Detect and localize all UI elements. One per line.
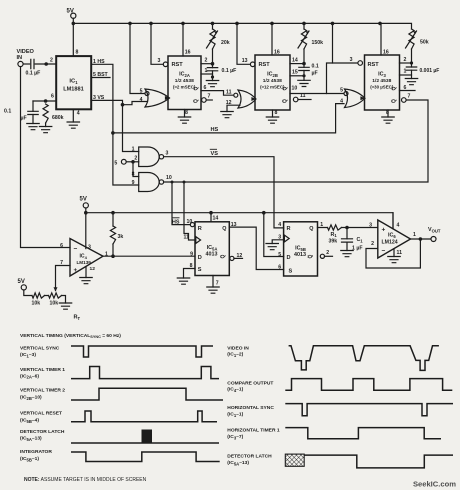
svg-text:Q̅: Q̅ bbox=[391, 99, 398, 103]
svg-text:Q̅: Q̅ bbox=[193, 99, 200, 103]
svg-text:Q̅: Q̅ bbox=[307, 254, 314, 258]
svg-text:Q: Q bbox=[222, 226, 226, 232]
svg-text:HORIZONTAL SYNC: HORIZONTAL SYNC bbox=[227, 405, 274, 411]
svg-text:3: 3 bbox=[369, 222, 372, 228]
svg-text:SeekIC.com: SeekIC.com bbox=[413, 480, 456, 489]
svg-text:2: 2 bbox=[404, 57, 407, 63]
svg-text:NOTE: ASSUME TARGET IS IN MIDD: NOTE: ASSUME TARGET IS IN MIDDLE OF SCRE… bbox=[24, 477, 147, 483]
svg-text:0.1: 0.1 bbox=[312, 64, 319, 70]
svg-text:C1: C1 bbox=[357, 237, 364, 243]
svg-text:µF: µF bbox=[312, 71, 318, 77]
svg-text:(≈12 mSEC): (≈12 mSEC) bbox=[260, 84, 285, 89]
svg-text:7: 7 bbox=[208, 94, 211, 100]
svg-text:7: 7 bbox=[408, 94, 411, 100]
svg-text:(IC2A–6): (IC2A–6) bbox=[20, 373, 39, 379]
svg-text:IC3: IC3 bbox=[378, 72, 386, 78]
svg-text:5V: 5V bbox=[80, 197, 87, 203]
svg-text:RT: RT bbox=[74, 315, 81, 321]
svg-text:39k: 39k bbox=[329, 238, 338, 244]
svg-text:10k: 10k bbox=[32, 301, 41, 307]
svg-text:6: 6 bbox=[404, 85, 407, 91]
svg-text:VIDEO IN: VIDEO IN bbox=[227, 345, 249, 351]
svg-text:16: 16 bbox=[185, 50, 191, 56]
svg-text:Q: Q bbox=[283, 86, 289, 90]
svg-text:(IC5B–4): (IC5B–4) bbox=[20, 417, 39, 423]
svg-text:3: 3 bbox=[88, 245, 91, 251]
svg-text:(≈30 µSEC): (≈30 µSEC) bbox=[370, 84, 394, 89]
svg-text:INTEGRATOR: INTEGRATOR bbox=[20, 449, 52, 455]
svg-text:1/2 4538: 1/2 4538 bbox=[175, 78, 194, 84]
svg-text:4: 4 bbox=[278, 222, 281, 228]
svg-text:10: 10 bbox=[166, 175, 172, 181]
svg-text:1 HS: 1 HS bbox=[93, 59, 105, 65]
svg-text:4: 4 bbox=[340, 99, 343, 105]
svg-text:5: 5 bbox=[140, 88, 143, 94]
svg-text:LM1881: LM1881 bbox=[63, 87, 84, 93]
svg-text:+: + bbox=[382, 227, 386, 234]
svg-text:4: 4 bbox=[77, 111, 80, 117]
svg-text:(IC3–7): (IC3–7) bbox=[227, 434, 243, 440]
svg-text:8: 8 bbox=[386, 110, 389, 116]
svg-text:5: 5 bbox=[114, 160, 117, 166]
svg-text:9: 9 bbox=[132, 180, 135, 186]
svg-text:IC1: IC1 bbox=[69, 79, 78, 85]
svg-text:VERTICAL TIMER 2: VERTICAL TIMER 2 bbox=[20, 388, 65, 394]
svg-text:16: 16 bbox=[274, 49, 280, 55]
svg-text:13: 13 bbox=[231, 222, 237, 228]
svg-text:LM124: LM124 bbox=[382, 240, 398, 246]
svg-text:3: 3 bbox=[278, 235, 281, 241]
svg-text:0.1: 0.1 bbox=[4, 109, 11, 115]
svg-text:Q: Q bbox=[392, 86, 398, 90]
svg-text:HORIZONTAL TIMER 1: HORIZONTAL TIMER 1 bbox=[227, 428, 280, 434]
svg-text:3 VS: 3 VS bbox=[93, 95, 105, 101]
svg-text:12: 12 bbox=[90, 266, 96, 272]
svg-text:µF: µF bbox=[21, 116, 27, 122]
svg-text:DETECTOR LATCH: DETECTOR LATCH bbox=[20, 429, 65, 435]
svg-text:D: D bbox=[287, 255, 291, 261]
svg-text:+: + bbox=[74, 267, 78, 274]
svg-text:RST: RST bbox=[172, 62, 184, 68]
svg-text:RST: RST bbox=[368, 62, 380, 68]
svg-text:Q̅: Q̅ bbox=[282, 99, 289, 103]
svg-text:7: 7 bbox=[216, 281, 219, 287]
svg-text:−: − bbox=[382, 248, 386, 255]
svg-text:5V: 5V bbox=[67, 9, 74, 15]
svg-text:5: 5 bbox=[340, 88, 343, 94]
svg-text:11: 11 bbox=[184, 235, 190, 241]
svg-text:150k: 150k bbox=[312, 40, 324, 46]
svg-text:5V: 5V bbox=[18, 279, 25, 285]
svg-text:11: 11 bbox=[226, 90, 232, 96]
svg-text:(IC5A–13): (IC5A–13) bbox=[20, 436, 42, 442]
svg-text:4: 4 bbox=[140, 97, 143, 103]
svg-text:VERTICAL TIMER 1: VERTICAL TIMER 1 bbox=[20, 367, 65, 373]
svg-text:1: 1 bbox=[105, 252, 108, 258]
svg-text:HS: HS bbox=[211, 127, 219, 133]
svg-text:HS: HS bbox=[172, 220, 180, 226]
svg-text:D: D bbox=[198, 255, 202, 261]
svg-text:1/2 4538: 1/2 4538 bbox=[263, 78, 282, 84]
svg-text:2: 2 bbox=[371, 241, 374, 247]
svg-text:3: 3 bbox=[166, 151, 169, 157]
svg-text:R: R bbox=[287, 226, 291, 232]
svg-text:4013: 4013 bbox=[294, 252, 306, 258]
svg-text:1: 1 bbox=[132, 147, 135, 153]
svg-text:(IC1–2): (IC1–2) bbox=[227, 351, 243, 357]
svg-text:Q: Q bbox=[194, 86, 200, 90]
svg-text:5 BST: 5 BST bbox=[93, 72, 109, 78]
svg-text:Q: Q bbox=[309, 226, 313, 232]
svg-text:1: 1 bbox=[205, 68, 208, 74]
svg-text:COMPARE OUTPUT: COMPARE OUTPUT bbox=[227, 380, 273, 386]
svg-text:RST: RST bbox=[259, 62, 271, 68]
svg-text:S: S bbox=[289, 269, 293, 275]
svg-text:7: 7 bbox=[60, 260, 63, 266]
svg-text:1: 1 bbox=[404, 69, 407, 75]
svg-text:1 µF: 1 µF bbox=[352, 246, 362, 252]
svg-text:5: 5 bbox=[278, 252, 281, 258]
svg-text:4013: 4013 bbox=[206, 252, 218, 258]
svg-text:VERTICAL SYNC: VERTICAL SYNC bbox=[20, 346, 60, 352]
svg-text:IC2B: IC2B bbox=[267, 72, 278, 78]
svg-text:8: 8 bbox=[76, 50, 79, 56]
svg-text:8: 8 bbox=[132, 172, 135, 178]
svg-text:10k: 10k bbox=[50, 301, 59, 307]
svg-text:(IC1–1): (IC1–1) bbox=[227, 412, 243, 418]
svg-text:10: 10 bbox=[292, 86, 298, 92]
svg-text:16: 16 bbox=[383, 49, 389, 55]
svg-text:10: 10 bbox=[187, 219, 193, 225]
svg-text:IC5B: IC5B bbox=[295, 246, 306, 252]
svg-text:12: 12 bbox=[237, 253, 243, 259]
svg-text:8: 8 bbox=[190, 263, 193, 269]
svg-text:R: R bbox=[198, 226, 202, 232]
svg-text:4: 4 bbox=[397, 223, 400, 229]
svg-text:2: 2 bbox=[205, 58, 208, 64]
svg-text:12: 12 bbox=[226, 100, 232, 106]
svg-text:(IC5B–1): (IC5B–1) bbox=[20, 456, 39, 462]
svg-text:50k: 50k bbox=[420, 40, 429, 46]
svg-text:2: 2 bbox=[326, 250, 329, 256]
svg-text:(≈2 mSEC): (≈2 mSEC) bbox=[173, 84, 196, 89]
svg-text:6: 6 bbox=[51, 94, 54, 100]
svg-text:6: 6 bbox=[278, 265, 281, 271]
svg-text:6: 6 bbox=[204, 85, 207, 91]
svg-text:0.001 µF: 0.001 µF bbox=[420, 68, 440, 74]
svg-text:1: 1 bbox=[413, 232, 416, 238]
svg-text:VERTICAL TIMING (VERTICALSYNC: VERTICAL TIMING (VERTICALSYNC = 60 Hz) bbox=[20, 333, 121, 339]
svg-text:8: 8 bbox=[275, 110, 278, 116]
svg-text:VERTICAL RESET: VERTICAL RESET bbox=[20, 411, 62, 417]
svg-text:3k: 3k bbox=[118, 234, 124, 240]
svg-text:2: 2 bbox=[134, 156, 137, 162]
svg-text:3: 3 bbox=[350, 57, 353, 63]
svg-text:DETECTOR LATCH: DETECTOR LATCH bbox=[227, 454, 272, 460]
svg-text:IC6: IC6 bbox=[388, 233, 396, 239]
svg-text:680k: 680k bbox=[52, 115, 64, 121]
svg-text:6: 6 bbox=[60, 243, 63, 249]
svg-text:(IC4–1): (IC4–1) bbox=[227, 387, 243, 393]
svg-text:(IC2B–10): (IC2B–10) bbox=[20, 394, 42, 400]
svg-text:0.1 µF: 0.1 µF bbox=[26, 71, 41, 77]
svg-text:9: 9 bbox=[190, 251, 193, 257]
svg-text:VS: VS bbox=[211, 151, 219, 157]
svg-text:IN: IN bbox=[17, 55, 23, 61]
svg-text:20k: 20k bbox=[221, 40, 230, 46]
svg-text:11: 11 bbox=[397, 250, 403, 256]
svg-text:(IC1–3): (IC1–3) bbox=[20, 352, 36, 358]
svg-text:R1: R1 bbox=[331, 232, 338, 238]
svg-text:15: 15 bbox=[292, 70, 298, 76]
svg-text:14: 14 bbox=[292, 58, 298, 64]
svg-text:13: 13 bbox=[242, 58, 248, 64]
svg-text:LM139: LM139 bbox=[77, 260, 92, 265]
svg-text:14: 14 bbox=[213, 215, 219, 221]
svg-text:1: 1 bbox=[320, 222, 323, 228]
svg-text:2: 2 bbox=[50, 58, 53, 64]
svg-text:IC2A: IC2A bbox=[179, 72, 190, 78]
svg-text:3: 3 bbox=[158, 58, 161, 64]
svg-text:1/2 4538: 1/2 4538 bbox=[372, 78, 391, 84]
svg-text:Q̅: Q̅ bbox=[220, 254, 227, 258]
svg-text:0.1 µF: 0.1 µF bbox=[222, 68, 237, 74]
svg-text:8: 8 bbox=[185, 110, 188, 116]
svg-text:S: S bbox=[198, 267, 202, 273]
svg-text:(IC5A–13): (IC5A–13) bbox=[227, 460, 249, 466]
svg-text:VOUT: VOUT bbox=[428, 227, 441, 233]
svg-text:IC5A: IC5A bbox=[207, 245, 218, 251]
svg-text:−: − bbox=[74, 246, 78, 253]
svg-text:11: 11 bbox=[300, 93, 306, 99]
